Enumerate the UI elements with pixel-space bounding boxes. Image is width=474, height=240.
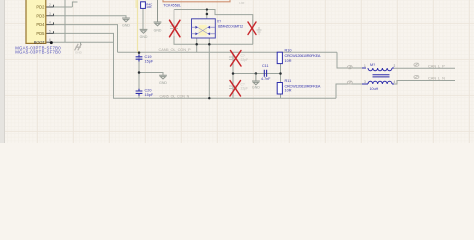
svg-text:5: 5 bbox=[49, 29, 51, 33]
svg-text:GND: GND bbox=[154, 29, 162, 33]
svg-text:PD2: PD2 bbox=[36, 5, 45, 10]
svg-text:4: 4 bbox=[49, 21, 51, 25]
svg-text:10R: 10R bbox=[285, 89, 292, 93]
svg-text:R11: R11 bbox=[285, 79, 292, 83]
svg-text:10R: 10R bbox=[285, 59, 292, 63]
svg-text:GND: GND bbox=[252, 86, 260, 90]
svg-text:4.7nF: 4.7nF bbox=[261, 77, 271, 81]
svg-text:PD4: PD4 bbox=[36, 22, 45, 27]
svg-text:X?: X? bbox=[217, 20, 221, 24]
svg-text:3: 3 bbox=[49, 12, 51, 16]
svg-text:BOOT: BOOT bbox=[34, 39, 46, 44]
svg-text:1: 1 bbox=[364, 64, 366, 68]
svg-text:CAN5_OL_CON_N: CAN5_OL_CON_N bbox=[160, 94, 190, 98]
svg-text:GND: GND bbox=[75, 50, 83, 54]
svg-text:PD5: PD5 bbox=[36, 31, 45, 36]
svg-text:2: 2 bbox=[49, 3, 51, 7]
svg-text:GND: GND bbox=[140, 35, 148, 39]
svg-text:C19: C19 bbox=[145, 55, 152, 59]
svg-text:15pF: 15pF bbox=[145, 93, 154, 97]
svg-text:8ZMHZCO-SMT12: 8ZMHZCO-SMT12 bbox=[218, 24, 243, 28]
svg-text:MGA5-03PTB-SF7B0: MGA5-03PTB-SF7B0 bbox=[15, 50, 61, 55]
svg-text:GND: GND bbox=[122, 23, 130, 27]
svg-text:CAN5_OL_CON_P: CAN5_OL_CON_P bbox=[159, 47, 192, 52]
svg-text:CAN_L_P: CAN_L_P bbox=[428, 63, 445, 68]
svg-text:3: 3 bbox=[364, 80, 366, 84]
svg-text:CAN_L_N: CAN_L_N bbox=[428, 75, 445, 80]
svg-text:6: 6 bbox=[49, 38, 51, 42]
svg-text:22pF: 22pF bbox=[241, 87, 249, 91]
svg-text:C11: C11 bbox=[262, 64, 269, 68]
svg-text:22pF: 22pF bbox=[241, 58, 249, 62]
svg-text:CRCW120610R0FKEA: CRCW120610R0FKEA bbox=[285, 54, 321, 58]
svg-text:10K: 10K bbox=[146, 5, 151, 9]
svg-text:15pF: 15pF bbox=[145, 60, 154, 64]
svg-text:M?: M? bbox=[370, 63, 375, 67]
svg-text:PD3: PD3 bbox=[36, 13, 45, 18]
svg-text:TCK4558L: TCK4558L bbox=[163, 4, 181, 8]
svg-text:10uH: 10uH bbox=[370, 87, 379, 91]
svg-text:GND: GND bbox=[159, 81, 167, 85]
svg-text:2: 2 bbox=[394, 64, 396, 68]
svg-text:4: 4 bbox=[394, 80, 396, 84]
svg-text:1.8#: 1.8# bbox=[239, 1, 245, 5]
svg-text:C20: C20 bbox=[145, 89, 152, 93]
svg-text:R10: R10 bbox=[285, 49, 292, 53]
